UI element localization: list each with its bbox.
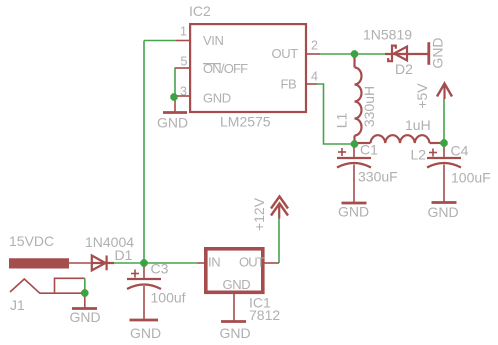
ground symbol bar under C1 [342, 202, 367, 205]
wire OUT net to diode [320, 53, 385, 55]
svg-text:C3: C3 [151, 261, 169, 277]
wire 15VDC to D1 [69, 262, 92, 264]
IC1 7812 regulator body [206, 249, 263, 292]
capacitor C3 plus sign [131, 270, 139, 278]
ground symbol bar under J1 [72, 307, 97, 310]
svg-text:LM2575: LM2575 [220, 114, 271, 130]
svg-text:100uF: 100uF [451, 170, 491, 186]
inductor L1 coil 330uH [355, 68, 362, 136]
capacitor C1 curved plate [337, 163, 371, 168]
ground symbol bar right of D2 (rotated) [427, 42, 430, 65]
node junction at IC2 GND pin [170, 93, 177, 100]
IC2 pin name ON/OFF with overbar [203, 61, 248, 76]
svg-text:+5V: +5V [414, 83, 430, 109]
capacitor C4 bottom stub [443, 165, 445, 202]
node junction at C3 node [140, 259, 147, 266]
inductor L1 top lead [353, 54, 355, 68]
IC1 input stub [198, 262, 206, 264]
svg-text:GND: GND [203, 91, 231, 106]
capacitor C3 bottom stub [143, 286, 145, 319]
capacitor C1 top stub [353, 144, 355, 158]
wire +12V net vertical [278, 219, 280, 264]
IC2 pin 3 stub [175, 95, 191, 97]
capacitor C3 curved plate [127, 285, 161, 290]
capacitor C4 plus sign [429, 149, 437, 157]
svg-text:D1: D1 [115, 247, 133, 263]
svg-text:330uH: 330uH [361, 86, 377, 127]
wire J1 sleeve to ground [84, 278, 86, 293]
svg-text:GND: GND [223, 277, 251, 292]
svg-text:GND: GND [130, 325, 161, 341]
IC1 output stub [264, 262, 279, 264]
ground stub under IC2 pin 3 [174, 96, 176, 112]
svg-text:GND: GND [338, 204, 369, 220]
ground stub under J1 [84, 293, 86, 307]
svg-text:C4: C4 [451, 143, 469, 159]
connector J1 spring contact zigzag [10, 279, 85, 293]
svg-text:VIN: VIN [203, 33, 223, 48]
diode D2 1N5819 schottky triangle [394, 47, 407, 61]
diode D2 lead line [385, 53, 429, 55]
inductor L1 bottom lead [353, 136, 355, 145]
node junction at C4 node [440, 139, 447, 146]
supply bar 15VDC thick wire [9, 258, 69, 268]
capacitor C3 top stub [143, 263, 145, 279]
svg-text:L1: L1 [334, 113, 350, 129]
svg-text:GND: GND [157, 115, 188, 131]
svg-text:GND: GND [428, 204, 459, 220]
capacitor C1 bottom stub [353, 165, 355, 203]
IC2 LM2575 regulator body [190, 24, 306, 112]
wire +5V net vertical [443, 99, 445, 143]
wire FB net [317, 84, 355, 144]
svg-text:100uf: 100uf [151, 290, 186, 306]
ground symbol bar under C3 [130, 319, 159, 322]
svg-text:GND: GND [220, 325, 251, 341]
node junction at switch node [351, 50, 358, 57]
connector J1 sleeve box [55, 278, 85, 293]
svg-text:1uH: 1uH [405, 117, 431, 133]
svg-text:GND: GND [70, 309, 101, 325]
svg-text:IC2: IC2 [189, 3, 211, 19]
wire D1 to IC1 input net [114, 262, 198, 264]
capacitor C4 top stub [443, 143, 445, 158]
svg-text:1: 1 [180, 25, 187, 39]
capacitor C4 curved plate [427, 163, 461, 168]
supply symbol +5V arrow [437, 84, 452, 100]
diode D1 cathode bar [105, 256, 107, 271]
inductor L2 right lead [430, 142, 445, 144]
capacitor C1 plus sign [338, 148, 346, 156]
IC2 pin 2 stub [306, 53, 320, 55]
svg-text:7812: 7812 [249, 307, 280, 323]
svg-text:330uF: 330uF [358, 169, 398, 185]
IC2 pin 5 stub [175, 67, 191, 69]
svg-text:GND: GND [430, 37, 446, 68]
node junction at C1 node [351, 140, 358, 147]
supply symbol +12V double arrow [271, 197, 288, 219]
svg-text:OUT: OUT [272, 46, 299, 61]
IC2 pin 4 stub [306, 83, 317, 85]
ground symbol bar under IC1 [221, 320, 246, 323]
IC1 ground stub [233, 293, 235, 321]
diode D1 lead line [92, 262, 114, 264]
diode D1 1N4004 triangle [92, 256, 106, 271]
node junction at J1 ground [81, 289, 88, 296]
svg-text:2: 2 [311, 39, 318, 53]
svg-text:+12V: +12V [251, 197, 267, 231]
svg-text:L2: L2 [411, 147, 427, 163]
diode D2 schottky cathode bar with hooks [388, 46, 396, 62]
svg-text:J1: J1 [10, 297, 25, 313]
svg-text:D2: D2 [395, 61, 413, 77]
svg-text:IN: IN [208, 255, 220, 270]
inductor L2 coil 1uH [371, 135, 430, 143]
ground symbol bar under C4 [432, 201, 457, 204]
svg-text:5: 5 [181, 55, 188, 69]
wire ON/OFF to GND pin [174, 68, 176, 96]
svg-text:FB: FB [281, 77, 297, 92]
IC2 pin 1 stub [176, 40, 190, 42]
svg-text:4: 4 [311, 70, 318, 84]
svg-text:1N5819: 1N5819 [363, 27, 412, 43]
svg-text:OUT: OUT [239, 255, 265, 270]
capacitor C4 top plate [427, 157, 461, 159]
wire VIN net long vertical [143, 41, 145, 264]
ground symbol bar under IC2 [163, 111, 187, 114]
capacitor C1 top plate [337, 157, 371, 159]
svg-text:15VDC: 15VDC [9, 233, 54, 249]
wire VIN net horizontal [144, 40, 176, 42]
capacitor C3 top plate [127, 278, 161, 280]
inductor L2 left lead [355, 142, 371, 144]
